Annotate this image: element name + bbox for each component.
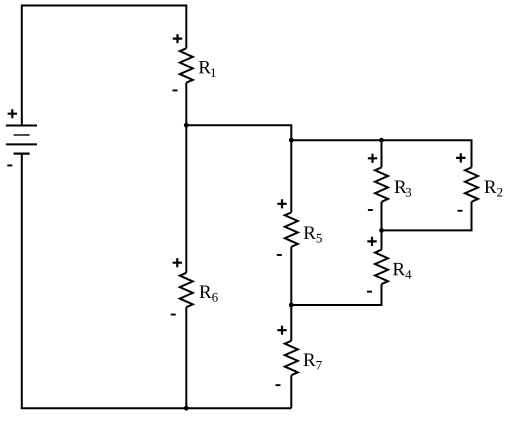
R5 positive marker	[277, 199, 286, 208]
label R5	[304, 226, 316, 238]
node B junction dot	[289, 138, 294, 143]
wire: node A right and down to node B	[186, 125, 291, 140]
wire: R6 bottom to bottom rail node	[185, 307, 187, 408]
R4 positive marker	[367, 237, 376, 246]
battery V1	[6, 126, 37, 154]
node C junction dot	[379, 228, 384, 233]
resistor R2	[465, 167, 478, 201]
wire: battery + up and across top to R1	[22, 6, 187, 126]
wire: R1 bottom to node A	[185, 83, 187, 126]
R6 positive marker	[173, 258, 182, 267]
label R2	[484, 181, 496, 193]
R2 positive marker	[456, 153, 465, 162]
label R3	[395, 181, 407, 193]
battery negative marker	[7, 165, 12, 167]
label R4	[393, 263, 405, 275]
wire: R5 bottom to node D	[290, 247, 292, 305]
wire: node D to R7 top	[290, 305, 292, 341]
wire: node C to R4 top	[381, 230, 383, 249]
wire: node B down to R5 top	[290, 140, 292, 212]
R7 positive marker	[277, 326, 286, 335]
wire: R3 top lead	[381, 140, 383, 167]
R5 negative marker	[277, 254, 282, 256]
wire: node A down to R6 top	[185, 125, 187, 273]
wire: node B across to R2 top	[291, 140, 471, 167]
resistor R6	[180, 273, 193, 307]
R7 negative marker	[276, 384, 281, 386]
R3 negative marker	[368, 209, 373, 211]
wire: R7 bottom to bottom rail	[290, 375, 292, 408]
R6 negative marker	[171, 314, 176, 316]
R1 positive marker	[173, 34, 182, 43]
wire: R2 bottom down and left to node C	[382, 202, 472, 231]
bottom rail junction dot	[184, 406, 189, 411]
R1 negative marker	[173, 90, 178, 92]
resistor R3	[375, 167, 388, 201]
wire: bottom rail	[21, 407, 292, 409]
resistor R1	[180, 48, 193, 82]
R4 negative marker	[367, 291, 372, 293]
label R7	[304, 354, 316, 366]
label R1	[199, 61, 211, 73]
wire: R3 bottom to node C	[381, 202, 383, 231]
node D junction dot	[289, 303, 294, 308]
resistor R5	[285, 212, 298, 246]
resistor R7	[285, 341, 298, 375]
wire: battery - down to bottom rail	[21, 154, 23, 409]
battery positive marker	[8, 109, 17, 118]
resistor R4	[375, 250, 388, 284]
wire: R4 bottom down and left to node D	[291, 284, 381, 305]
R2 negative marker	[458, 210, 463, 212]
node on R3 branch junction dot	[379, 138, 384, 143]
node A junction dot	[184, 123, 189, 128]
label R6	[200, 286, 212, 298]
R3 positive marker	[368, 154, 377, 163]
